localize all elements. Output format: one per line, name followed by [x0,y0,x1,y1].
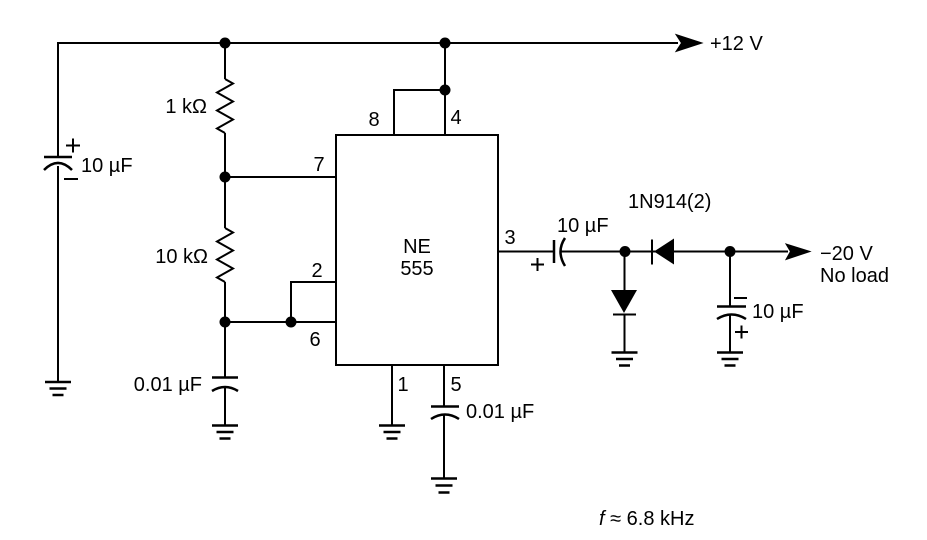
svg-text:4: 4 [450,107,461,129]
wire: node to D2 [624,252,626,291]
node: D2 junction dot [620,246,631,257]
label: 1N914(2) [628,191,711,213]
diode D2 1N914 (vertical, pointing down) [611,290,637,315]
label: 10 uF (C5) [752,301,804,323]
capacitor C5 10 uF (output filter, polarized) [717,298,748,339]
svg-text:−20 V: −20 V [820,243,873,265]
node: rail / pin 4 junction dot [440,38,451,49]
node: rail / R1 junction [220,38,231,49]
wire: pin 4 to rail [444,43,446,135]
wire: C1 to ground [57,166,59,382]
svg-text:1N914(2): 1N914(2) [628,191,711,213]
svg-text:10 µF: 10 µF [557,215,609,237]
node: pin 8 / pin 4 junction dot [440,85,451,96]
svg-text:6: 6 [309,329,320,351]
ground (below C2) [212,426,238,439]
wire: R2 to node 6 [224,282,226,322]
pin label 7 [313,154,324,176]
diode D1 1N914 (horizontal, pointing left) [652,239,674,265]
svg-text:7: 7 [313,154,324,176]
svg-text:No load: No load [820,265,889,287]
svg-text:10 µF: 10 µF [752,301,804,323]
wire: pin 7 to IC [225,176,336,178]
node: C5 junction dot [725,246,736,257]
wire: D2 to ground [624,315,626,353]
node: pin 6 junction dot [220,317,231,328]
arrow: +12V supply [676,35,702,52]
wire: +12V top rail [58,43,678,157]
wire: node 6 to C2 [224,322,226,377]
label: f ~ 6.8 kHz [599,508,694,530]
svg-text:0.01 µF: 0.01 µF [466,401,534,423]
capacitor C4 10 uF (coupling, polarized) [531,238,565,271]
wire: pin 6 to IC [225,321,336,323]
pin label 5 [450,374,461,396]
wire: pin 3 to C4 [498,251,554,253]
resistor R2 10 kOhm [217,228,233,282]
svg-text:1 kΩ: 1 kΩ [165,96,207,118]
pin label 1 [397,374,408,396]
ground (below C5) [717,353,743,366]
wire: pin 5 to C3 [443,365,445,406]
wire: rail to R1 [224,43,226,79]
wire: pin 1 to ground [391,365,393,425]
ground (below D2) [612,353,638,366]
label: 10 kOhm [155,246,208,268]
wire: C4 to output [561,251,788,253]
svg-text:5: 5 [450,374,461,396]
svg-text:NE: NE [403,236,431,258]
label: 0.01 uF (C3) [466,401,534,423]
arrow: output [786,244,810,260]
resistor R1 1 kOhm [217,79,233,133]
wire: pin 2 to IC [291,282,336,322]
svg-text:10 kΩ: 10 kΩ [155,246,208,268]
wire: node to C5 [729,252,731,307]
capacitor C2 0.01 uF [212,378,238,392]
svg-text:2: 2 [311,260,322,282]
capacitor C3 0.01 uF [431,407,459,420]
op-amp U1: NE555 IC box [336,135,498,365]
label: 1 kOhm [165,96,207,118]
wire: pin 8 to node [394,90,445,135]
wire: left branch from rail down to C1 [57,43,59,157]
svg-text:0.01 µF: 0.01 µF [134,374,202,396]
wire: R1 to node 7 [224,133,226,177]
label: 0.01 uF (C2) [134,374,202,396]
svg-text:10 µF: 10 µF [81,155,133,177]
pin label 2 [311,260,322,282]
label: 10 uF (C4) [557,215,609,237]
ground (below C3) [431,479,457,493]
wire: C3 to ground [443,415,445,478]
label: -20 V [820,243,873,265]
wire: C5 to ground [729,315,731,352]
wire: C2 to ground [224,387,226,425]
capacitor C1 10 uF (left, polarized) [44,139,80,180]
ground (below C1) [45,382,71,395]
label: 10 uF (C1) [81,155,133,177]
label: NE 555 [400,236,433,280]
svg-text:1: 1 [397,374,408,396]
svg-text:3: 3 [504,227,515,249]
node: pin 2 junction dot [286,317,297,328]
ground (pin 1) [379,426,405,439]
svg-text:f ≈ 6.8 kHz: f ≈ 6.8 kHz [599,508,694,530]
pin label 3 [504,227,515,249]
label: No load [820,265,889,287]
pin label 8 [368,109,379,131]
wire: node 7 to R2 [224,177,226,228]
pin label 4 [450,107,461,129]
pin label 6 [309,329,320,351]
svg-text:8: 8 [368,109,379,131]
svg-text:555: 555 [400,258,433,280]
svg-text:+12 V: +12 V [710,33,763,55]
node: pin 7 junction dot [220,172,231,183]
label: +12 V [710,33,763,55]
